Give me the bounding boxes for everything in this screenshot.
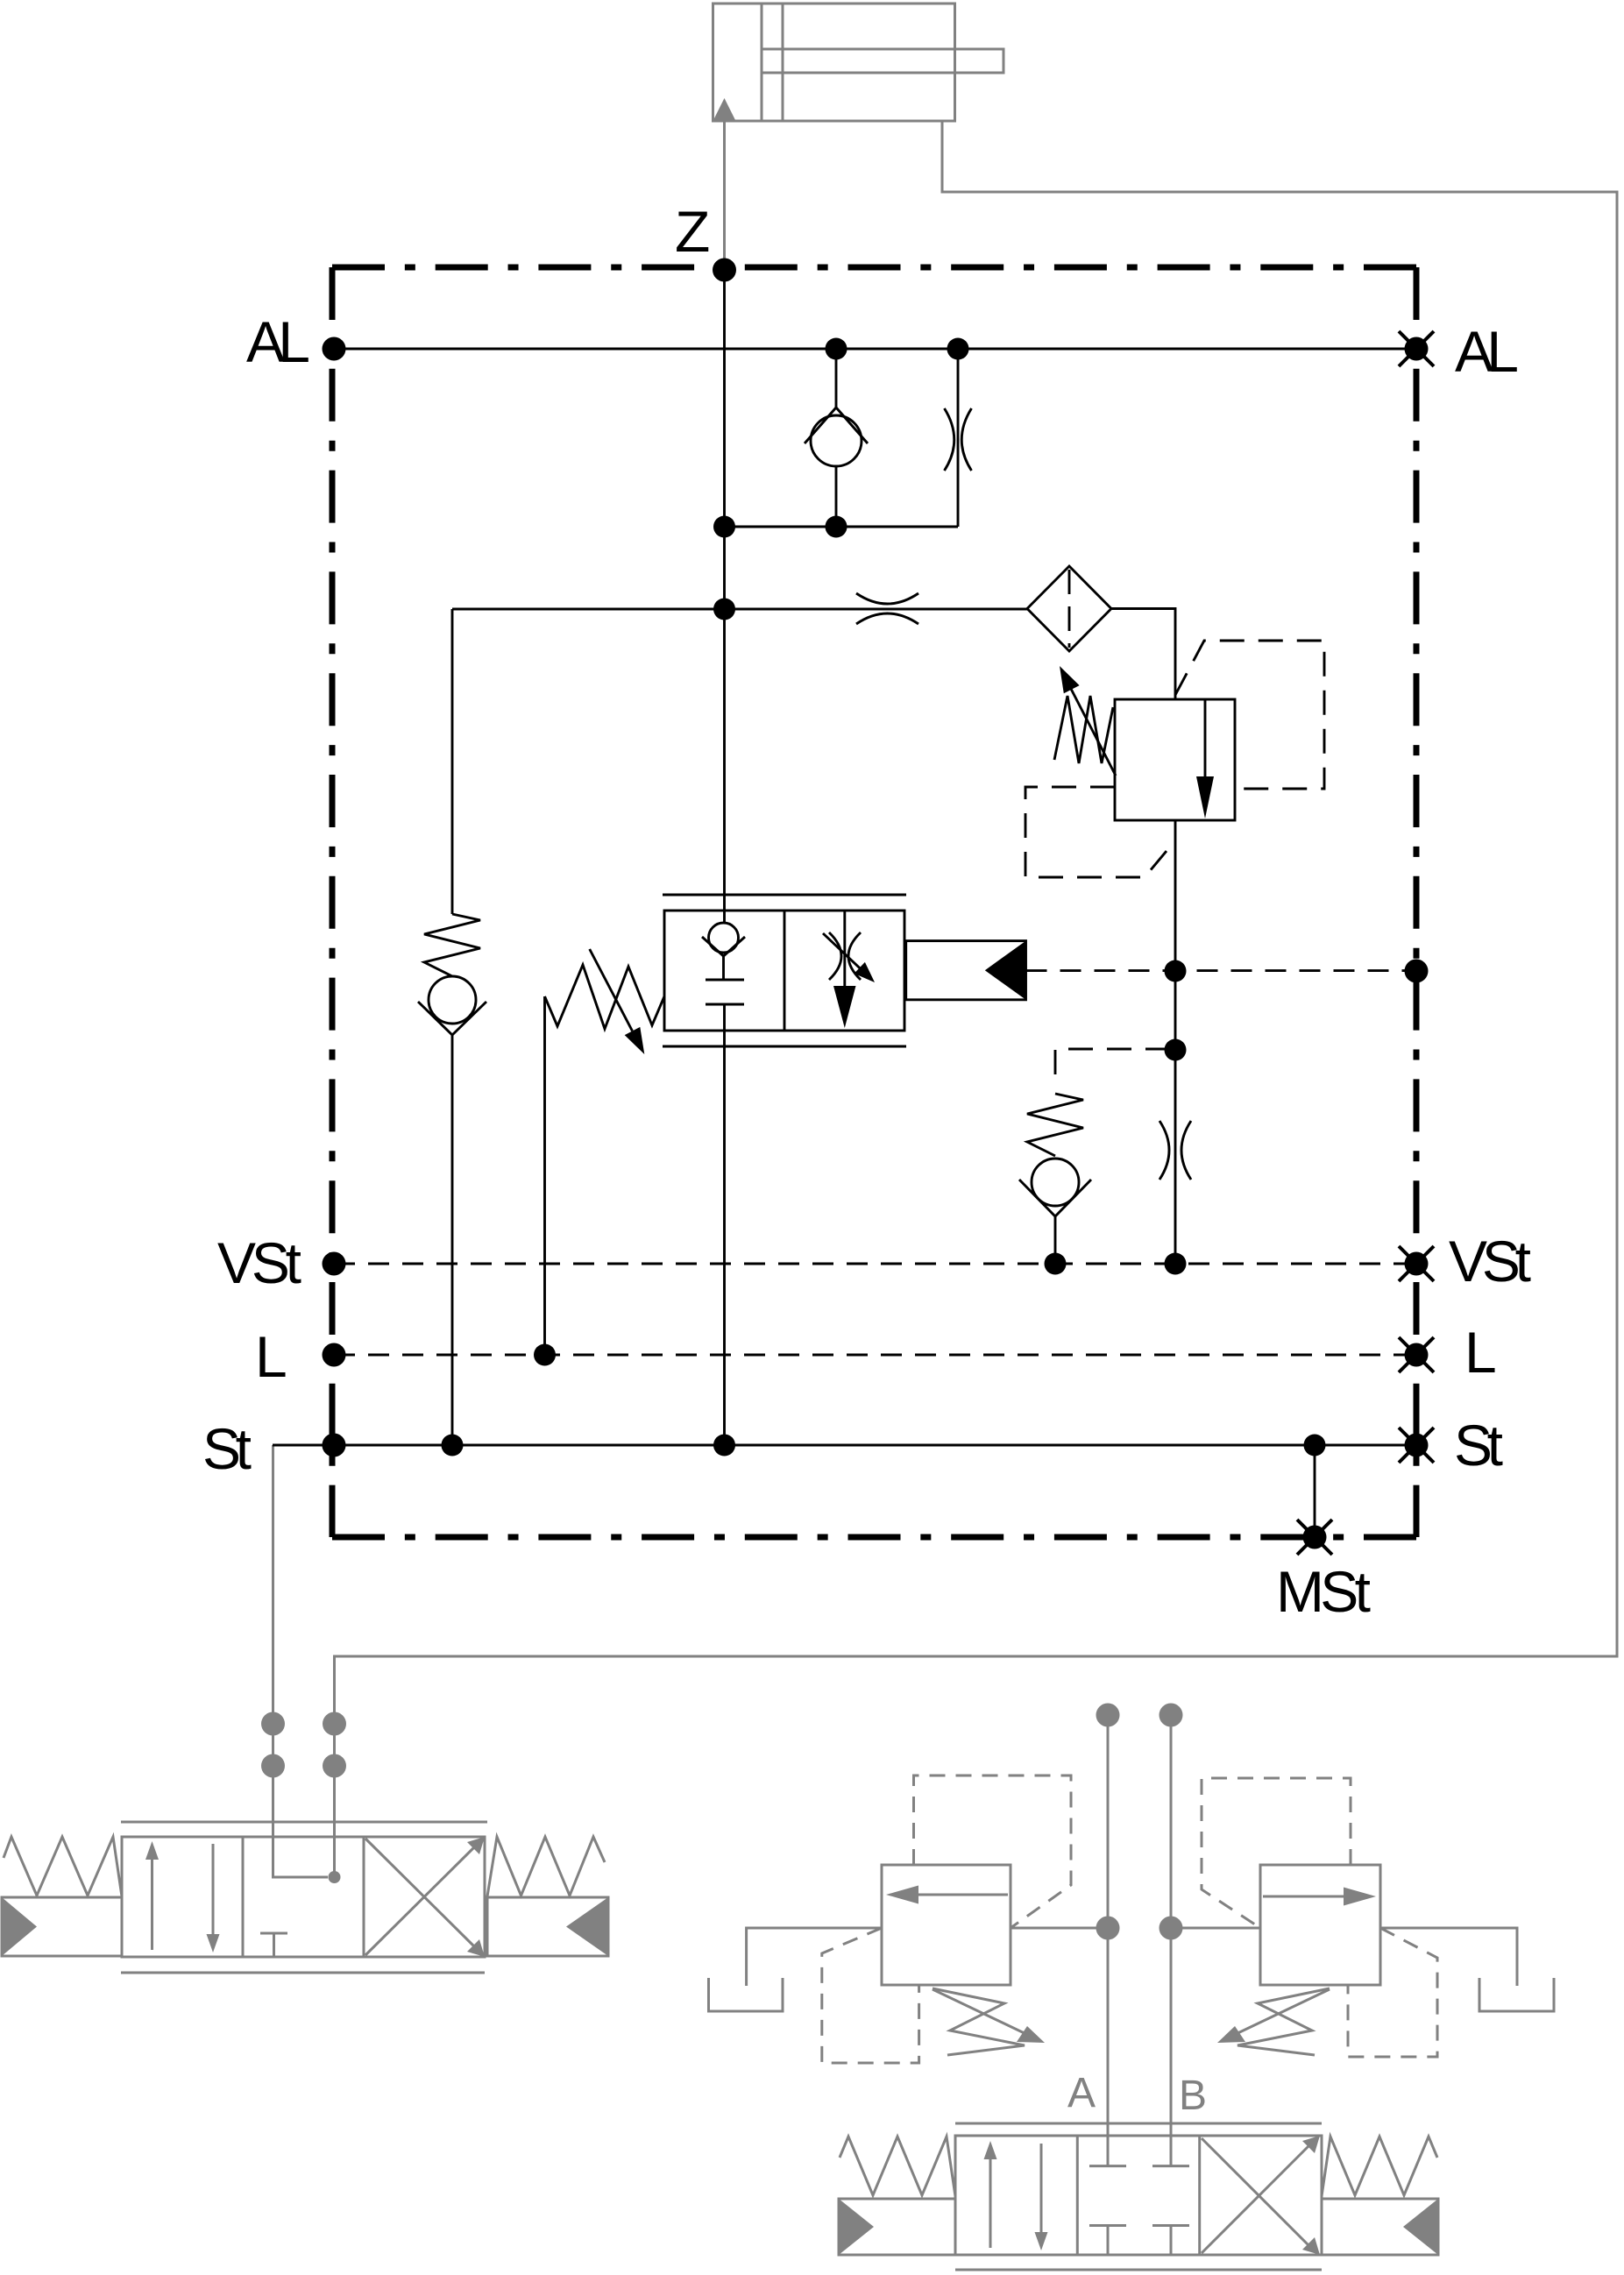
- svg-text:Z: Z: [675, 199, 710, 264]
- svg-text:L: L: [1464, 1320, 1497, 1385]
- svg-text:MSt: MSt: [1276, 1559, 1371, 1624]
- svg-text:L: L: [255, 1324, 287, 1389]
- svg-text:St: St: [1454, 1413, 1503, 1478]
- svg-text:VSt: VSt: [1449, 1229, 1531, 1293]
- svg-text:A: A: [1067, 2070, 1096, 2116]
- svg-text:AL: AL: [1455, 319, 1519, 384]
- svg-text:VSt: VSt: [217, 1230, 301, 1295]
- svg-text:St: St: [202, 1416, 252, 1481]
- svg-text:AL: AL: [246, 309, 310, 374]
- svg-text:B: B: [1179, 2073, 1207, 2119]
